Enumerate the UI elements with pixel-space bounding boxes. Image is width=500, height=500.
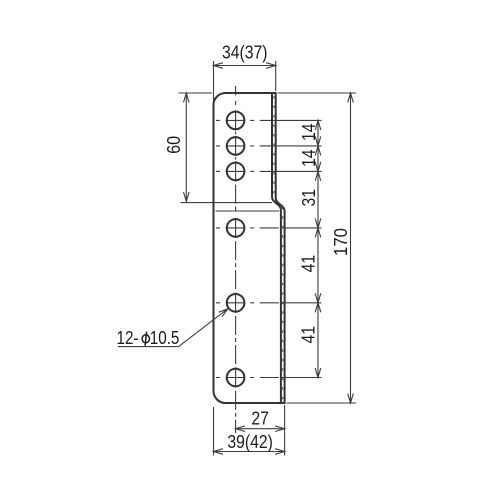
vertical centerline xyxy=(235,86,237,433)
svg-text:14: 14 xyxy=(298,149,319,167)
hole centerline 3 xyxy=(216,170,271,172)
hole H2 xyxy=(227,137,245,155)
dimension 34(37) top width xyxy=(213,61,215,106)
phi symbol xyxy=(142,335,149,343)
plate outline xyxy=(214,93,285,403)
hole H5 xyxy=(227,294,245,312)
plate right edge inner line xyxy=(272,94,281,402)
dimension 39(42) bottom xyxy=(213,407,215,456)
bend hidden line xyxy=(274,96,283,400)
hole centerline 4 xyxy=(216,227,280,229)
svg-text:41: 41 xyxy=(297,326,318,344)
hole centerline 5 xyxy=(216,302,280,304)
svg-text:60: 60 xyxy=(163,136,184,154)
dimension 27 bottom xyxy=(284,405,286,433)
dimension 60 left xyxy=(179,92,213,94)
hole H1 xyxy=(227,112,245,130)
svg-text:31: 31 xyxy=(298,189,319,207)
hole centerline 6 xyxy=(216,377,280,379)
dimension 170 right xyxy=(278,92,357,94)
svg-text:39(42): 39(42) xyxy=(227,431,273,452)
dimension stack line 14/14/31/41/41 xyxy=(317,120,319,377)
hole H4 xyxy=(227,219,245,237)
bend tangent line upper / 60 extension line xyxy=(181,202,273,204)
svg-text:14: 14 xyxy=(298,123,319,141)
hole H3 xyxy=(227,163,245,181)
svg-text:34(37): 34(37) xyxy=(222,42,268,63)
hole centerline 1 xyxy=(216,119,271,121)
svg-text:12-: 12- xyxy=(117,327,139,348)
svg-text:41: 41 xyxy=(297,255,318,273)
svg-text:27: 27 xyxy=(251,408,269,429)
hole centerline 2 xyxy=(216,145,271,147)
svg-text:10.5: 10.5 xyxy=(150,327,180,348)
hole H6 xyxy=(227,369,245,387)
bend tangent line lower xyxy=(216,210,280,212)
svg-text:170: 170 xyxy=(330,228,351,256)
